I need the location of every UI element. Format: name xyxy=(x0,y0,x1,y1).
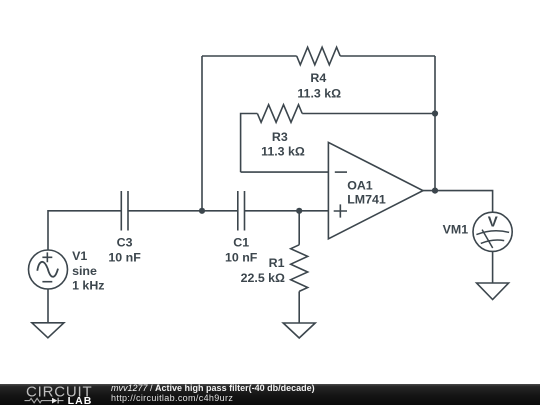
node A junction dot xyxy=(199,208,205,214)
svg-text:http://circuitlab.com/c4h9urz: http://circuitlab.com/c4h9urz xyxy=(111,393,233,403)
wire main V1 to C3 xyxy=(48,211,121,250)
node R3/R4 junction dot xyxy=(432,110,438,116)
resistor R3 xyxy=(257,105,302,123)
svg-text:R1: R1 xyxy=(269,256,285,270)
svg-text:VM1: VM1 xyxy=(443,223,469,237)
resistor R1 xyxy=(291,211,308,323)
svg-text:V: V xyxy=(488,214,498,231)
wire op-amp output to VM1 xyxy=(423,191,493,213)
svg-text:V1: V1 xyxy=(72,249,87,263)
svg-text:11.3 kΩ: 11.3 kΩ xyxy=(261,144,305,158)
capacitor C1 xyxy=(238,191,245,231)
ground (below VM1) xyxy=(477,283,509,300)
ground (below R1) xyxy=(283,323,315,338)
ground (below V1) xyxy=(32,323,64,338)
svg-text:10 nF: 10 nF xyxy=(108,251,141,265)
wire - input xyxy=(241,171,329,173)
wire R3 left bend xyxy=(241,114,258,173)
node B junction dot xyxy=(296,208,302,214)
svg-text:OA1: OA1 xyxy=(347,178,373,192)
capacitor C3 xyxy=(121,191,128,231)
svg-text:22.5 kΩ: 22.5 kΩ xyxy=(241,271,285,285)
wire top loop right xyxy=(340,55,435,57)
wire V1 to ground xyxy=(47,289,49,323)
svg-text:LM741: LM741 xyxy=(347,193,386,207)
svg-text:C1: C1 xyxy=(233,236,249,250)
wire right vertical to output xyxy=(434,56,436,191)
svg-text:mvv1277 / Active high pass fil: mvv1277 / Active high pass filter(-40 db… xyxy=(111,383,315,393)
svg-text:R3: R3 xyxy=(272,130,288,144)
node output junction dot xyxy=(432,188,438,194)
svg-text:R4: R4 xyxy=(310,71,326,85)
svg-text:10 nF: 10 nF xyxy=(225,251,258,265)
resistor R4 xyxy=(297,47,341,65)
CircuitLab logo xyxy=(25,384,93,405)
wire VM1 to ground xyxy=(492,251,494,283)
svg-text:1 kHz: 1 kHz xyxy=(72,279,104,293)
svg-text:LAB: LAB xyxy=(68,395,93,405)
svg-text:11.3 kΩ: 11.3 kΩ xyxy=(297,86,341,100)
voltmeter VM1 xyxy=(473,212,512,251)
wire node A up to feedback loop xyxy=(201,56,203,211)
svg-text:C3: C3 xyxy=(117,236,133,250)
wire C1 to op-amp + input xyxy=(245,210,329,212)
svg-text:sine: sine xyxy=(72,264,97,278)
wire top loop left xyxy=(202,55,297,57)
op-amp OA1 xyxy=(328,142,423,238)
voltage source V1 xyxy=(29,250,68,289)
wire C3 to C1 xyxy=(128,210,238,212)
wire R3 right to node xyxy=(302,113,435,115)
